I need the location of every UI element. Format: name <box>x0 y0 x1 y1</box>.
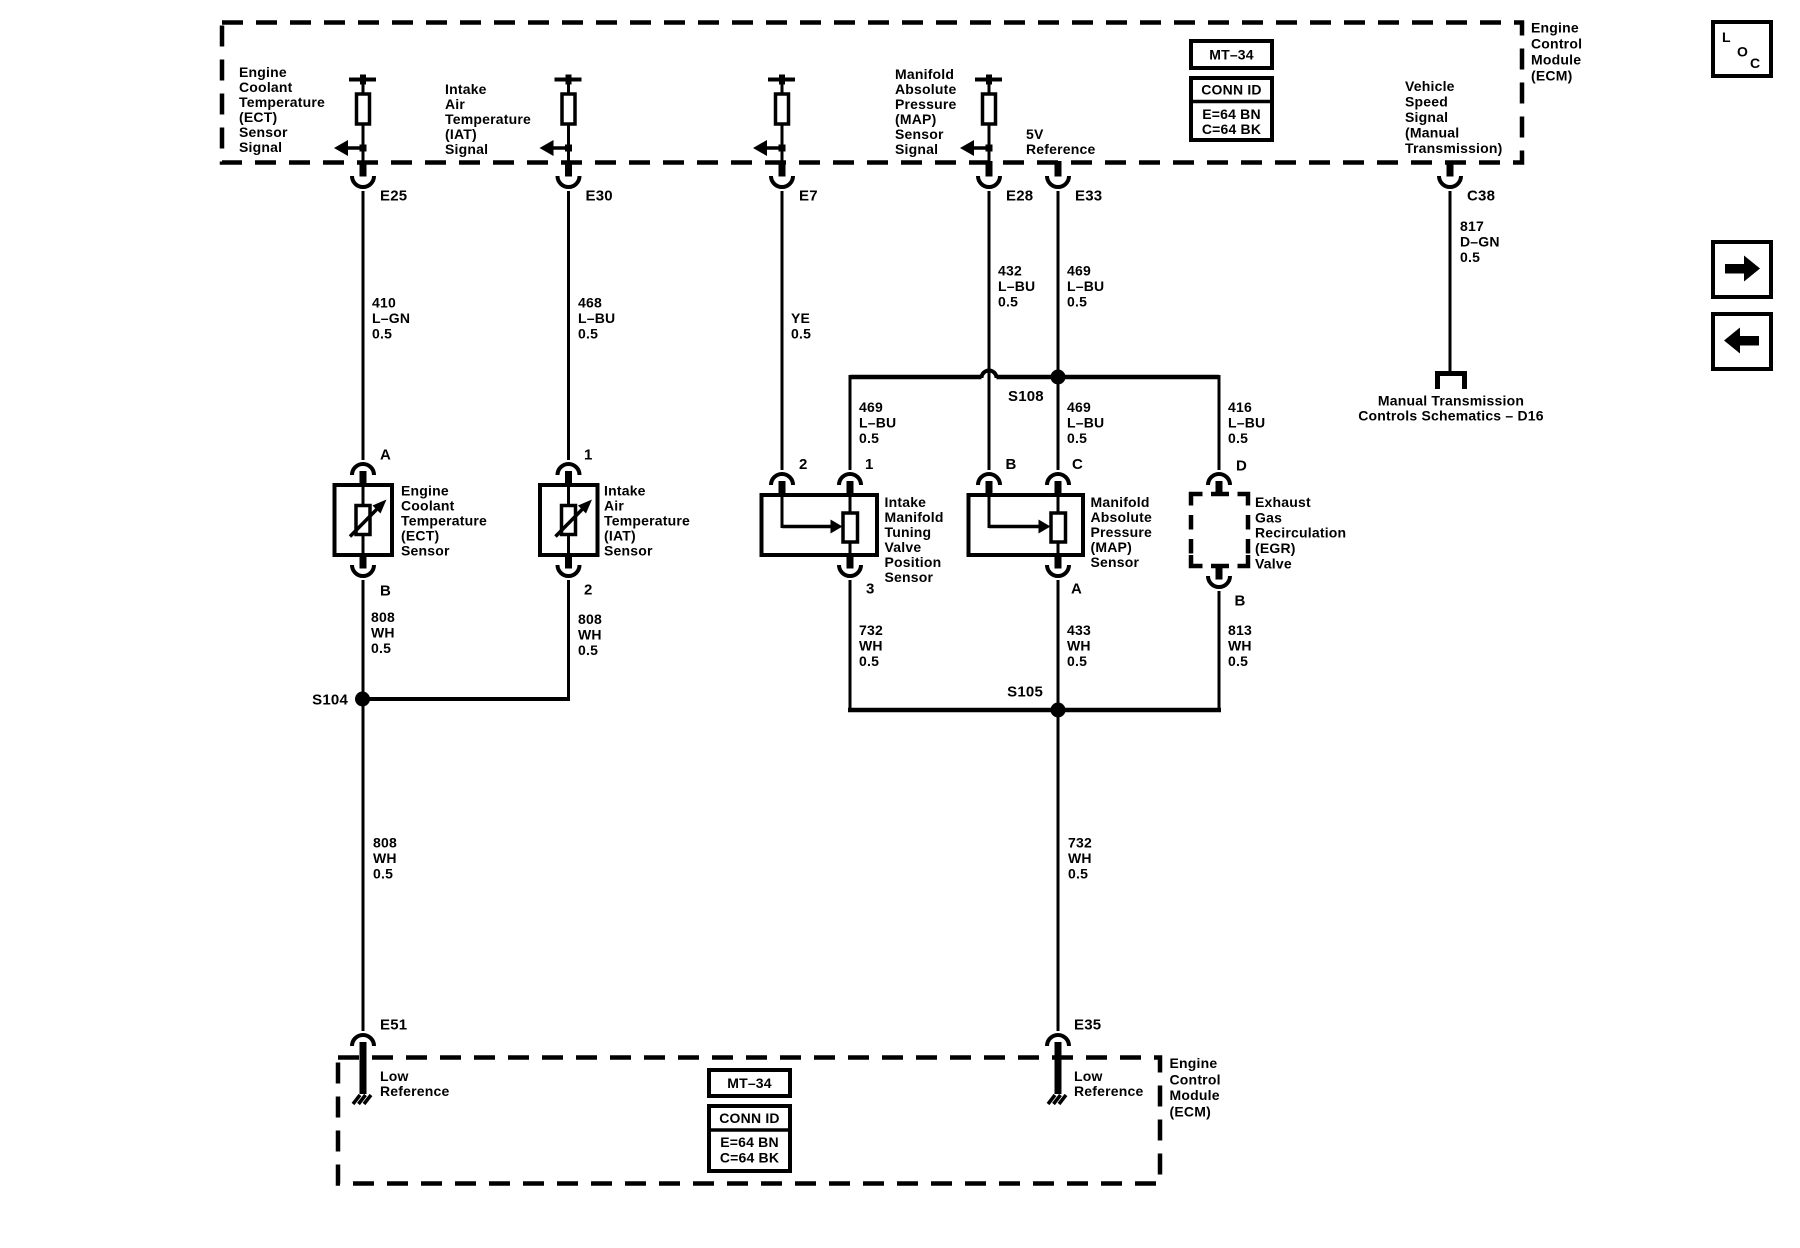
svg-text:B: B <box>1006 456 1017 473</box>
IAT signal label <box>445 81 531 157</box>
splice S105 junction dot <box>1007 683 1065 717</box>
connector pin 2 (IMT valve position sensor) <box>771 456 808 495</box>
svg-text:Signal: Signal <box>445 141 488 157</box>
svg-text:C: C <box>1750 55 1760 71</box>
svg-text:Reference: Reference <box>1026 141 1096 157</box>
Engine Control Module (ECM) bottom dashed box <box>338 1058 1160 1184</box>
svg-text:S108: S108 <box>1008 388 1044 405</box>
connector pin A (MAP sensor) <box>1047 555 1082 597</box>
svg-text:D: D <box>1236 457 1247 474</box>
svg-text:(ECT): (ECT) <box>239 109 277 125</box>
svg-text:5V: 5V <box>1026 126 1044 142</box>
svg-text:Temperature: Temperature <box>604 513 690 529</box>
wire 813 WH (EGR B to S105) <box>1219 591 1252 710</box>
connector pin A (ECT sensor) <box>352 446 391 485</box>
svg-text:CONN ID: CONN ID <box>1201 82 1262 98</box>
connector pin B (ECT sensor) <box>352 555 391 599</box>
LOC locator box <box>1713 22 1771 76</box>
svg-text:E33: E33 <box>1075 187 1102 204</box>
svg-text:Manifold: Manifold <box>1091 494 1150 510</box>
svg-text:468: 468 <box>578 295 602 311</box>
ECM connector pin E28 <box>978 161 1033 204</box>
svg-text:CONN ID: CONN ID <box>719 1110 780 1126</box>
IMT valve position sensor box <box>762 495 878 555</box>
forward navigation arrow box <box>1713 242 1771 297</box>
svg-text:Control: Control <box>1170 1072 1221 1088</box>
svg-text:L–BU: L–BU <box>578 310 615 326</box>
svg-text:S104: S104 <box>312 691 348 708</box>
svg-text:0.5: 0.5 <box>1067 294 1087 310</box>
svg-text:0.5: 0.5 <box>1067 653 1087 669</box>
svg-text:Absolute: Absolute <box>1091 509 1153 525</box>
ECM connector pin E35 <box>1047 1016 1101 1094</box>
svg-text:WH: WH <box>1068 850 1092 866</box>
svg-text:Manual Transmission: Manual Transmission <box>1378 393 1524 409</box>
svg-text:Reference: Reference <box>1074 1083 1144 1099</box>
svg-text:Recirculation: Recirculation <box>1255 525 1346 541</box>
resistor R IMT pull-up with signal arrow <box>753 75 795 164</box>
svg-text:MT–34: MT–34 <box>1209 47 1254 63</box>
svg-text:L–BU: L–BU <box>1228 415 1265 431</box>
svg-text:Temperature: Temperature <box>445 111 531 127</box>
svg-text:3: 3 <box>866 580 875 597</box>
connector pin C (MAP sensor) <box>1047 456 1083 495</box>
svg-text:416: 416 <box>1228 399 1252 415</box>
svg-text:E51: E51 <box>380 1016 407 1033</box>
svg-text:Temperature: Temperature <box>401 513 487 529</box>
svg-text:Intake: Intake <box>885 494 927 510</box>
svg-text:Air: Air <box>604 498 624 514</box>
svg-text:Temperature: Temperature <box>239 94 325 110</box>
svg-text:L–BU: L–BU <box>998 278 1035 294</box>
svg-text:0.5: 0.5 <box>1228 430 1248 446</box>
svg-text:0.5: 0.5 <box>1228 653 1248 669</box>
svg-text:E=64 BN: E=64 BN <box>1202 106 1261 122</box>
ECM label (bottom) <box>1170 1055 1221 1120</box>
svg-text:WH: WH <box>578 627 602 643</box>
svg-text:Low: Low <box>380 1068 409 1084</box>
svg-text:C=64 BK: C=64 BK <box>720 1150 779 1166</box>
svg-text:MT–34: MT–34 <box>727 1075 772 1091</box>
svg-text:0.5: 0.5 <box>372 326 392 342</box>
svg-text:C38: C38 <box>1467 187 1495 204</box>
ECM connector pin E30 <box>558 161 613 204</box>
MAP sensor box <box>969 495 1084 555</box>
svg-text:Valve: Valve <box>885 539 922 555</box>
svg-text:Sensor: Sensor <box>401 543 450 559</box>
svg-text:813: 813 <box>1228 622 1252 638</box>
wire 416 L-BU (S108 to EGR D) <box>1228 399 1265 446</box>
svg-text:1: 1 <box>865 456 874 473</box>
svg-text:(ECT): (ECT) <box>401 528 439 544</box>
wire 732 WH (IMT 3 to S105) <box>850 580 883 710</box>
ECM connector pin E51 <box>352 1016 407 1094</box>
svg-text:Valve: Valve <box>1255 556 1292 572</box>
svg-text:Signal: Signal <box>239 139 282 155</box>
svg-text:Module: Module <box>1170 1087 1220 1103</box>
svg-text:A: A <box>380 446 391 463</box>
svg-text:WH: WH <box>1067 638 1091 654</box>
svg-text:469: 469 <box>859 399 883 415</box>
svg-text:Pressure: Pressure <box>1091 524 1153 540</box>
svg-text:(EGR): (EGR) <box>1255 540 1296 556</box>
ECM label (top right) <box>1531 20 1582 84</box>
svg-text:WH: WH <box>373 850 397 866</box>
svg-text:Engine: Engine <box>401 483 449 499</box>
5V Reference label <box>1026 126 1096 157</box>
wire 469 L-BU (S108 to MAP C) <box>1058 377 1104 470</box>
svg-text:Controls Schematics – D16: Controls Schematics – D16 <box>1358 408 1544 424</box>
svg-text:0.5: 0.5 <box>578 326 598 342</box>
wire 433 WH (MAP A to S105) <box>1058 580 1091 710</box>
svg-text:A: A <box>1071 580 1082 597</box>
svg-text:Position: Position <box>885 554 942 570</box>
off-page connector to Manual Transmission Controls Schematics D16 <box>1358 374 1544 424</box>
svg-text:0.5: 0.5 <box>578 642 598 658</box>
splice S108 bus wire (5V reference distribution) <box>850 371 1219 471</box>
svg-text:L–BU: L–BU <box>1067 415 1104 431</box>
svg-text:E28: E28 <box>1006 187 1033 204</box>
svg-text:B: B <box>380 582 391 599</box>
svg-text:0.5: 0.5 <box>1067 430 1087 446</box>
wire 410 L-GN (E25 to ECT A) <box>363 191 410 460</box>
ECT sensor signal label <box>239 64 325 155</box>
svg-text:Air: Air <box>445 96 465 112</box>
resistor R ECT pull-up with signal arrow <box>334 75 376 164</box>
ECM connector pin E7 <box>771 161 818 204</box>
svg-text:Coolant: Coolant <box>239 79 293 95</box>
svg-text:Engine: Engine <box>1170 1055 1218 1071</box>
svg-text:Pressure: Pressure <box>895 96 957 112</box>
Engine Control Module (ECM) top dashed box <box>222 23 1522 163</box>
svg-text:WH: WH <box>1228 638 1252 654</box>
svg-text:YE: YE <box>791 310 810 326</box>
svg-text:(MAP): (MAP) <box>895 111 936 127</box>
splice S104 <box>312 691 370 708</box>
svg-text:Control: Control <box>1531 36 1582 52</box>
svg-text:0.5: 0.5 <box>1460 249 1480 265</box>
Vehicle Speed Signal label <box>1405 78 1503 156</box>
svg-text:2: 2 <box>584 581 593 598</box>
wire 469 L-BU (E33 to S108) <box>1058 191 1104 377</box>
svg-text:Manifold: Manifold <box>895 66 954 82</box>
svg-text:1: 1 <box>584 446 593 463</box>
IMT valve position sensor name <box>885 494 944 585</box>
svg-text:Speed: Speed <box>1405 94 1448 110</box>
svg-text:Transmission): Transmission) <box>1405 140 1503 156</box>
svg-text:808: 808 <box>373 835 397 851</box>
svg-text:Intake: Intake <box>445 81 487 97</box>
svg-text:Manifold: Manifold <box>885 509 944 525</box>
ECT sensor box <box>335 485 393 555</box>
connector pin B (EGR valve) <box>1208 566 1246 609</box>
svg-text:469: 469 <box>1067 399 1091 415</box>
svg-text:E35: E35 <box>1074 1016 1101 1033</box>
Low Reference label (right) <box>1074 1068 1144 1099</box>
svg-text:L: L <box>1722 29 1731 45</box>
connector pin 1 (IAT sensor) <box>558 446 593 485</box>
svg-text:(Manual: (Manual <box>1405 125 1459 141</box>
back navigation arrow box <box>1713 314 1771 369</box>
svg-text:L–BU: L–BU <box>859 415 896 431</box>
svg-text:WH: WH <box>859 638 883 654</box>
svg-text:0.5: 0.5 <box>998 294 1018 310</box>
svg-text:S105: S105 <box>1007 683 1043 700</box>
MAP sensor name <box>1091 494 1153 570</box>
connector pin 2 (IAT sensor) <box>558 555 593 598</box>
svg-text:WH: WH <box>371 625 395 641</box>
splice S105 bus wire <box>848 708 1221 713</box>
svg-text:E7: E7 <box>799 187 818 204</box>
svg-text:0.5: 0.5 <box>791 326 811 342</box>
svg-text:(ECM): (ECM) <box>1170 1104 1211 1120</box>
svg-text:433: 433 <box>1067 622 1091 638</box>
splice S108 junction dot <box>1008 370 1066 405</box>
svg-text:Engine: Engine <box>239 64 287 80</box>
svg-text:Absolute: Absolute <box>895 81 957 97</box>
svg-text:Sensor: Sensor <box>1091 554 1140 570</box>
svg-text:432: 432 <box>998 263 1022 279</box>
svg-text:817: 817 <box>1460 218 1484 234</box>
svg-text:L–GN: L–GN <box>372 310 410 326</box>
svg-text:Gas: Gas <box>1255 510 1282 526</box>
connector pin 1 (IMT valve position sensor) <box>839 456 874 495</box>
MAP sensor signal label <box>895 66 957 157</box>
svg-text:Sensor: Sensor <box>239 124 288 140</box>
wire 817 D-GN (C38 to manual transmission schematics) <box>1450 191 1500 372</box>
connector pin D (EGR valve) <box>1208 457 1247 495</box>
svg-text:0.5: 0.5 <box>1068 866 1088 882</box>
svg-text:Sensor: Sensor <box>895 126 944 142</box>
Low Reference label (left) <box>380 1068 450 1099</box>
svg-text:Intake: Intake <box>604 483 646 499</box>
MT-34 reference box (bottom) <box>709 1070 790 1096</box>
svg-text:Engine: Engine <box>1531 20 1579 36</box>
svg-text:E30: E30 <box>586 187 613 204</box>
svg-text:410: 410 <box>372 295 396 311</box>
svg-text:0.5: 0.5 <box>859 653 879 669</box>
svg-text:Sensor: Sensor <box>885 569 934 585</box>
svg-text:D–GN: D–GN <box>1460 234 1500 250</box>
svg-text:(IAT): (IAT) <box>604 528 636 544</box>
CONN ID box (top) <box>1191 78 1272 140</box>
svg-text:(ECM): (ECM) <box>1531 68 1572 84</box>
ECT sensor name <box>401 483 487 559</box>
resistor R MAP pull-up with signal arrow <box>960 75 1002 164</box>
IAT sensor box <box>540 485 598 555</box>
wire 468 L-BU (E30 to IAT 1) <box>569 191 616 460</box>
wire 808 WH (IAT 2 to S104) <box>362 580 602 699</box>
ECM connector pin C38 <box>1439 161 1495 204</box>
svg-text:(MAP): (MAP) <box>1091 539 1132 555</box>
wire 808 WH (ECT B to S104) <box>363 580 395 699</box>
svg-text:Signal: Signal <box>1405 109 1448 125</box>
svg-text:0.5: 0.5 <box>859 430 879 446</box>
svg-text:B: B <box>1235 592 1246 609</box>
svg-text:732: 732 <box>1068 835 1092 851</box>
svg-text:0.5: 0.5 <box>371 640 391 656</box>
svg-text:Vehicle: Vehicle <box>1405 78 1455 94</box>
svg-text:0.5: 0.5 <box>373 866 393 882</box>
wire YE (E7 to IMT 2) <box>782 191 811 470</box>
svg-text:2: 2 <box>799 456 808 473</box>
svg-text:Tuning: Tuning <box>885 524 932 540</box>
connector pin B (MAP sensor) <box>978 456 1017 495</box>
wire 732 WH (S105 to E35) <box>1058 710 1092 1031</box>
svg-text:Sensor: Sensor <box>604 543 653 559</box>
svg-text:Signal: Signal <box>895 141 938 157</box>
svg-text:O: O <box>1737 44 1748 60</box>
EGR valve name <box>1255 494 1346 572</box>
ECM connector pin E25 <box>352 161 407 204</box>
svg-text:L–BU: L–BU <box>1067 278 1104 294</box>
svg-text:808: 808 <box>578 611 602 627</box>
svg-text:Exhaust: Exhaust <box>1255 494 1311 510</box>
svg-text:Low: Low <box>1074 1068 1103 1084</box>
svg-text:469: 469 <box>1067 263 1091 279</box>
connector pin 3 (IMT valve position sensor) <box>839 555 875 597</box>
wire 808 WH (S104 to E51) <box>363 699 397 1031</box>
svg-text:E=64 BN: E=64 BN <box>720 1134 779 1150</box>
ground (low reference) at E35 <box>1048 1095 1066 1104</box>
svg-text:C=64 BK: C=64 BK <box>1202 121 1261 137</box>
wire 432 L-BU (E28 to MAP B) <box>989 191 1035 470</box>
svg-text:E25: E25 <box>380 187 407 204</box>
svg-text:C: C <box>1072 456 1083 473</box>
svg-text:808: 808 <box>371 609 395 625</box>
svg-text:Reference: Reference <box>380 1083 450 1099</box>
MT-34 reference box (top) <box>1191 41 1272 68</box>
EGR valve dashed box <box>1191 494 1248 566</box>
resistor R IAT pull-up with signal arrow <box>540 75 582 164</box>
wire 469 L-BU (S108 to IMT 1) <box>859 399 896 446</box>
svg-text:Coolant: Coolant <box>401 498 455 514</box>
svg-text:732: 732 <box>859 622 883 638</box>
CONN ID box (bottom) <box>709 1106 790 1171</box>
svg-text:Module: Module <box>1531 52 1581 68</box>
ground (low reference) at E51 <box>353 1095 371 1104</box>
svg-text:(IAT): (IAT) <box>445 126 477 142</box>
ECM connector pin E33 <box>1047 161 1102 204</box>
IAT sensor name <box>604 483 690 559</box>
